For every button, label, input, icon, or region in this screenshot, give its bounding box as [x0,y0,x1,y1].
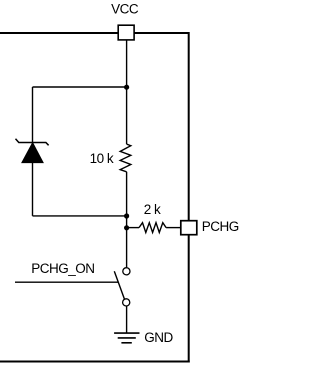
node junction bottom of loop [124,213,129,218]
wire top border VCC rail [0,32,189,34]
switch S1 arm [114,271,124,299]
svg-text:10 k: 10 k [90,151,114,166]
zener diode D1 triangle [22,143,43,163]
node junction top of loop [124,85,129,90]
svg-text:GND: GND [144,330,173,345]
resistor R1 10k zigzag [120,144,131,172]
wire bottom border [0,361,190,363]
wire main vertical 10k to switch [126,172,128,267]
ground symbol [114,333,139,343]
svg-text:2 k: 2 k [144,202,161,217]
wire 2k branch left segment [127,227,139,229]
terminal PCHG square [181,221,197,235]
wire switch bottom to ground [126,307,128,334]
switch S1 top contact circle [123,268,130,275]
svg-text:PCHG: PCHG [202,219,239,234]
wire PCHG_ON stub [15,281,119,283]
svg-text:PCHG_ON: PCHG_ON [31,261,94,276]
wire loop left vertical through diode [32,87,34,216]
wire loop top horizontal [33,86,127,88]
wire 2k branch right segment to PCHG [166,227,181,229]
node junction 2k branch [124,225,129,230]
switch S1 bottom contact circle [123,299,130,306]
terminal VCC square [118,25,134,40]
wire main vertical from VCC to 10k [126,40,128,144]
svg-text:VCC: VCC [111,1,139,16]
zener diode D1 bar [16,139,49,146]
wire loop bottom horizontal [33,215,127,217]
wire right border [188,32,190,363]
resistor R2 2k zigzag [139,223,166,233]
